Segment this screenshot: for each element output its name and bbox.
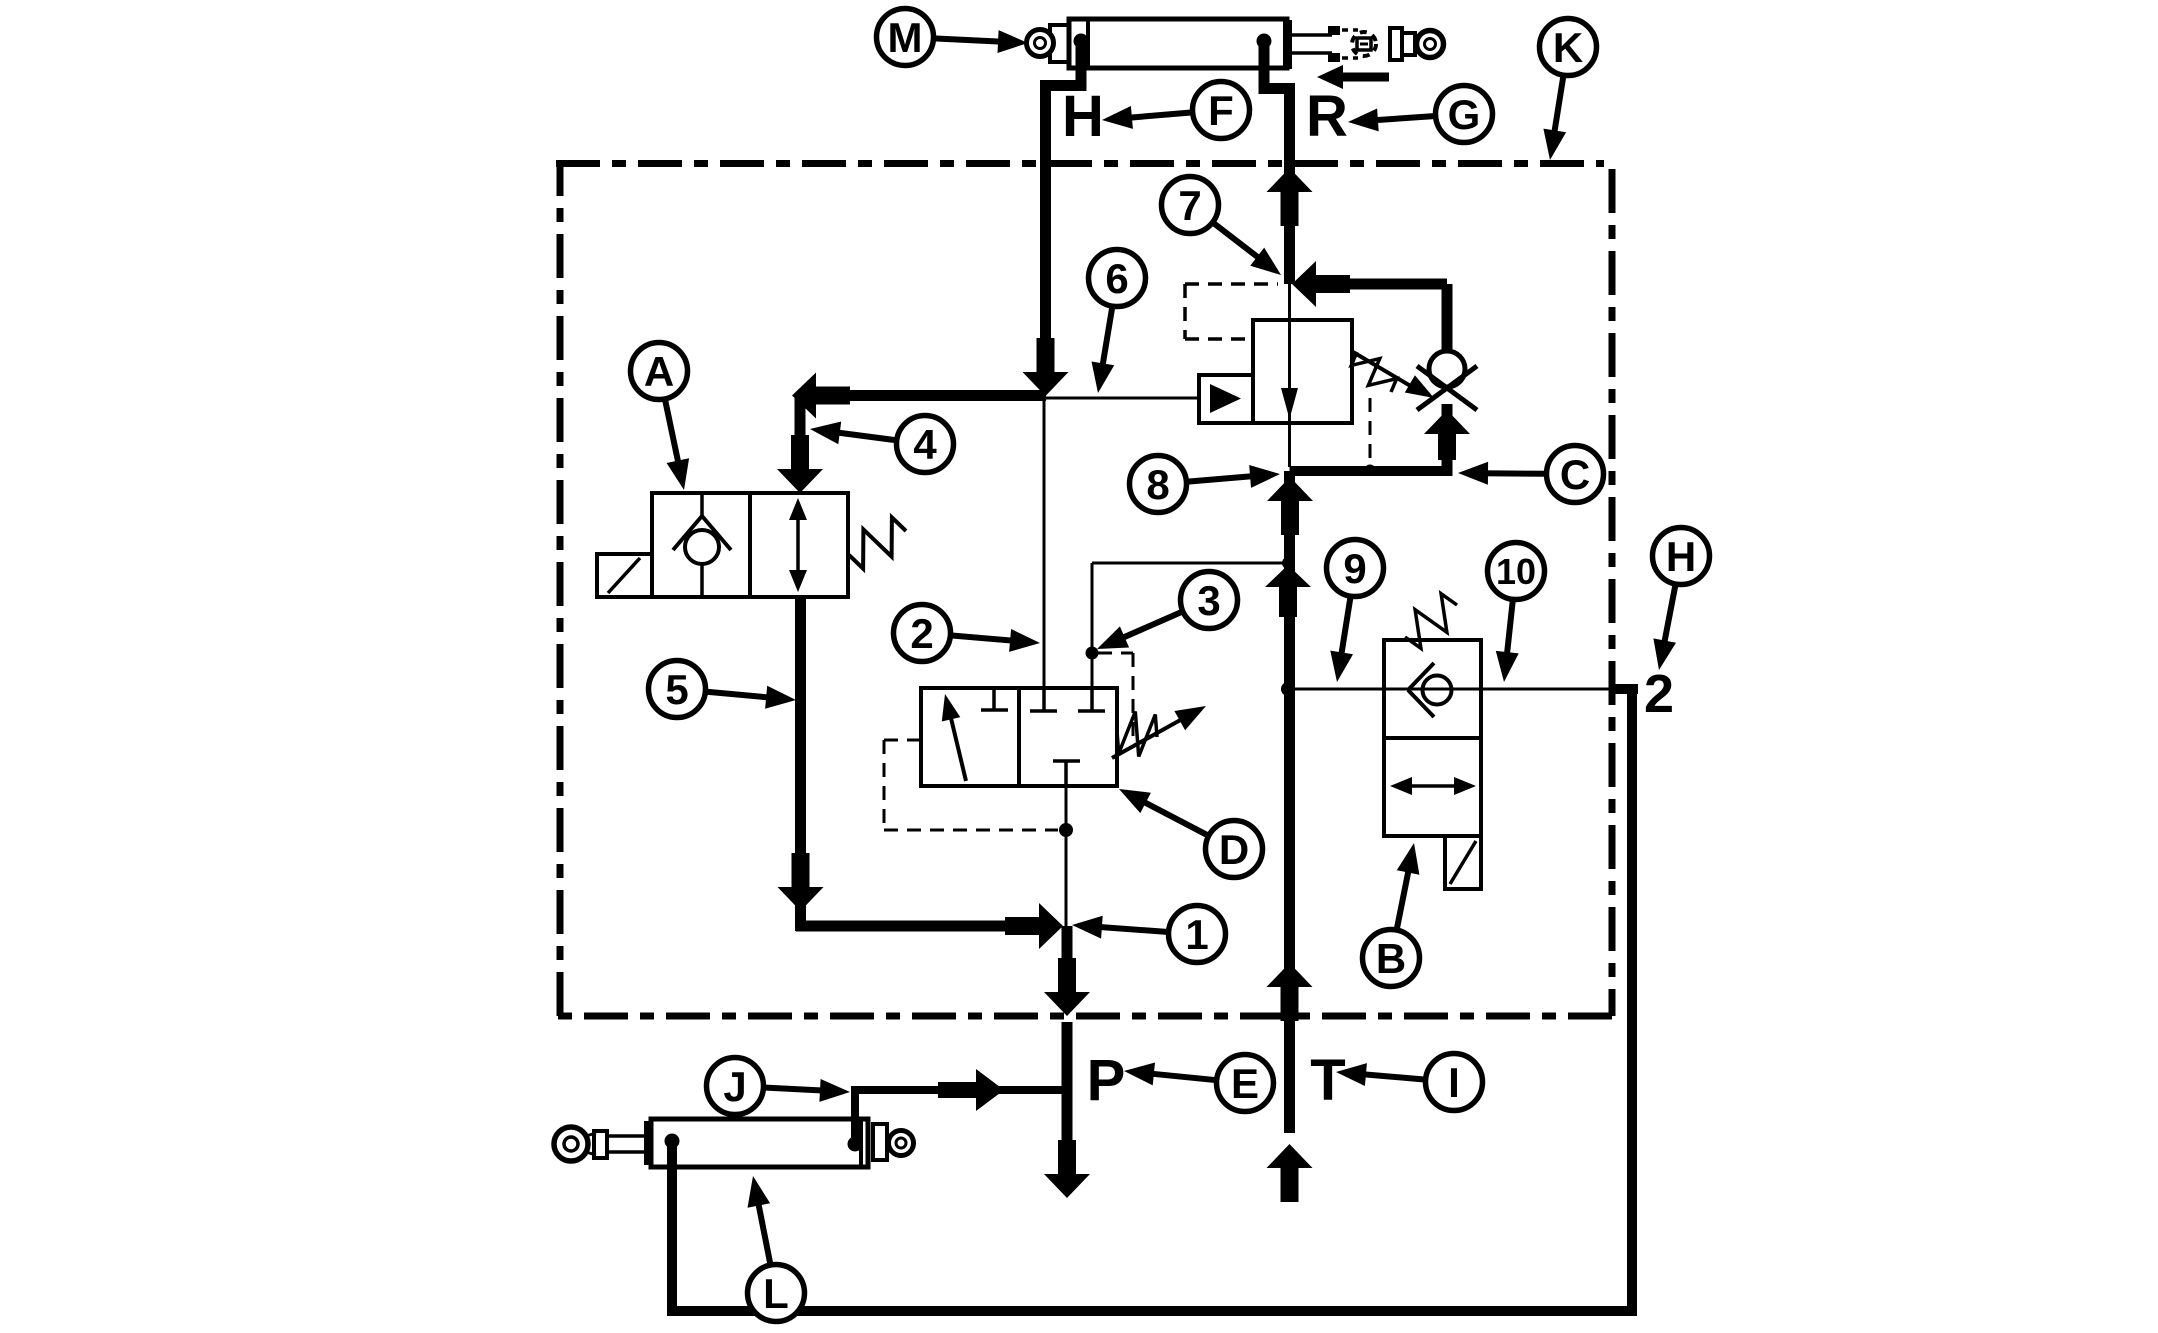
wire line-3 drop — [1091, 563, 1094, 652]
wire below check valve — [1442, 404, 1453, 471]
callout I — [1336, 1054, 1483, 1111]
relief valve adjust arrow — [1353, 352, 1414, 388]
arrow right into junction 1 — [1005, 903, 1063, 949]
dashed from dot 3 — [1098, 652, 1133, 655]
svg-text:D: D — [1219, 826, 1249, 873]
arrow down P end — [1044, 1140, 1090, 1198]
valve A check symbol — [700, 493, 704, 519]
svg-text:1: 1 — [1185, 911, 1208, 958]
svg-text:4: 4 — [913, 421, 937, 468]
cylinder L right eye — [873, 1124, 887, 1160]
cylinder M rod-end cap — [1283, 20, 1292, 69]
wire external right vertical — [1627, 684, 1637, 1316]
wire line-5 vertical — [795, 597, 806, 868]
relief valve body — [1253, 320, 1352, 423]
wire external bottom — [667, 1306, 1637, 1316]
junction dot 3 — [1086, 647, 1099, 660]
arrow up T inlet — [1267, 1144, 1313, 1202]
svg-text:G: G — [1448, 91, 1481, 138]
check valve C seat — [1417, 366, 1477, 410]
cylinder M rod — [1292, 33, 1332, 37]
valve A body — [652, 493, 848, 597]
callout K — [1540, 19, 1597, 161]
valve D port T left cell — [992, 688, 996, 710]
wire T line main — [1284, 471, 1295, 1133]
valve D spring — [1117, 712, 1157, 757]
valve B flow arrow (double headed horizontal) — [1404, 784, 1462, 788]
cylinder L port dots — [665, 1134, 680, 1149]
svg-text:I: I — [1448, 1059, 1460, 1106]
valve B check symbol — [1408, 663, 1434, 690]
junction dot below valve D — [1059, 823, 1073, 837]
arrow left end of line-4 — [792, 373, 850, 419]
valve D port T right cell a — [1042, 688, 1046, 711]
valve A flow arrow (double headed) — [796, 514, 800, 574]
cylinder L rod eye — [554, 1127, 588, 1161]
retract direction arrow — [1317, 65, 1389, 89]
wire pilot into valve D right — [1091, 653, 1094, 688]
cylinder M rod eye — [1390, 28, 1402, 60]
relief valve pilot box — [1199, 375, 1253, 423]
svg-text:2: 2 — [1644, 664, 1674, 724]
cylinder L rod bracket — [594, 1131, 607, 1158]
callout 8 — [1130, 456, 1281, 513]
svg-text:F: F — [1208, 87, 1234, 134]
relief valve internal arrow — [1281, 388, 1298, 419]
arrow up below junction 8 — [1267, 477, 1313, 535]
svg-text:10: 10 — [1496, 551, 1536, 592]
check valve C ball — [1429, 351, 1465, 387]
junction dot valve B branch — [1281, 682, 1295, 696]
callout B — [1363, 843, 1420, 987]
arrow up below line-3 junction — [1265, 565, 1311, 617]
wire line-3 thin — [1092, 562, 1284, 565]
wire R vertical line — [1284, 85, 1295, 284]
valve B solenoid — [1445, 836, 1481, 889]
arrow left into junction 7 — [1292, 261, 1350, 307]
valve D port T right cell b — [1090, 688, 1094, 711]
svg-text:9: 9 — [1343, 545, 1366, 592]
wire J riser — [851, 1090, 859, 1140]
svg-text:3: 3 — [1197, 577, 1220, 624]
callout J — [707, 1058, 851, 1115]
cylinder L rod — [607, 1134, 651, 1138]
wire pilot line 2 — [1043, 396, 1046, 688]
relief valve dashed envelope — [1185, 282, 1278, 286]
callout 5 — [649, 661, 797, 718]
svg-text:7: 7 — [1178, 182, 1201, 229]
valve D body — [921, 688, 1117, 786]
svg-text:B: B — [1376, 935, 1406, 982]
arrow down into valve A — [777, 435, 823, 493]
wire external left up to cylinder L — [667, 1141, 677, 1316]
cylinder L head cap — [644, 1121, 652, 1165]
wire P below border — [1062, 1022, 1073, 1156]
wire junction-8 horizontal — [1290, 466, 1453, 476]
svg-text:6: 6 — [1105, 255, 1128, 302]
callout 6 — [1089, 250, 1146, 394]
cylinder M clevis — [1050, 25, 1069, 62]
junction dot line-3 — [1282, 557, 1294, 569]
wire line-2 corner step — [1615, 684, 1638, 694]
svg-text:8: 8 — [1146, 461, 1169, 508]
callout 9 — [1327, 540, 1384, 683]
valve D dashed pilot box — [884, 739, 921, 742]
arrow down on line-5 — [778, 853, 824, 911]
svg-text:J: J — [723, 1063, 746, 1110]
arrow up on R line at border — [1267, 168, 1313, 226]
valve D bottom port T — [1053, 759, 1080, 763]
enclosure border K (dash-dot box) — [556, 160, 1604, 167]
callout L — [748, 1176, 805, 1322]
wire line-4 horizontal — [840, 390, 1046, 401]
wire line-5 corner horizontal — [796, 921, 1020, 932]
wire J horizontal — [851, 1086, 1062, 1094]
relief dashed pilot sense — [1369, 398, 1372, 464]
valve B body — [1384, 640, 1481, 836]
wire drop into valve A — [795, 398, 806, 462]
relief valve spring — [1351, 352, 1396, 392]
wire below junction 1 — [1062, 926, 1073, 974]
svg-text:2: 2 — [910, 610, 933, 657]
valve B spring — [1405, 594, 1457, 649]
callout F — [1102, 82, 1250, 139]
wire R port down-jog — [1264, 45, 1290, 120]
svg-text:M: M — [888, 14, 923, 61]
valve D adjust arrow — [1112, 718, 1184, 758]
arrow up on T above border — [1267, 963, 1313, 1021]
callout C — [1458, 446, 1604, 503]
svg-text:K: K — [1553, 24, 1583, 71]
wire line-9-10 — [1295, 688, 1620, 691]
arrow down at border P — [1044, 958, 1090, 1016]
svg-text:T: T — [1310, 1048, 1345, 1113]
cylinder L body — [651, 1119, 868, 1167]
wire H port down-jog — [1046, 45, 1082, 120]
cylinder M rod coupler (dashed quick-connect) — [1328, 26, 1340, 35]
arrow up below check valve — [1424, 410, 1470, 460]
wire valve D to junction 1 — [1065, 786, 1068, 926]
wire relief center line — [1288, 284, 1291, 467]
callout 1 — [1072, 906, 1226, 963]
svg-text:A: A — [644, 348, 674, 395]
valve A spring — [849, 517, 906, 568]
valve A solenoid — [597, 554, 652, 597]
cylinder M body — [1069, 19, 1287, 68]
callout H — [1653, 528, 1710, 671]
svg-text:P: P — [1087, 1048, 1126, 1113]
callout 4 — [810, 416, 954, 473]
callout E — [1124, 1055, 1274, 1112]
svg-text:5: 5 — [665, 666, 688, 713]
svg-text:C: C — [1560, 451, 1590, 498]
svg-text:H: H — [1666, 533, 1696, 580]
svg-text:R: R — [1306, 84, 1348, 149]
svg-text:L: L — [763, 1270, 789, 1317]
svg-text:E: E — [1231, 1060, 1259, 1107]
callout 2 — [894, 605, 1041, 662]
callout M — [877, 9, 1029, 66]
cylinder M port dots — [1074, 34, 1089, 49]
callout 10 — [1488, 543, 1545, 683]
wire H vertical line — [1040, 85, 1051, 372]
callout G — [1348, 86, 1493, 143]
valve D left-cell arrow — [950, 714, 966, 781]
callout A — [631, 343, 690, 491]
arrow down at H junction — [1023, 338, 1069, 396]
wire loop from junction 7 — [1308, 279, 1447, 290]
arrow right on J line — [938, 1069, 1004, 1111]
wire line-6 thin — [1046, 397, 1199, 400]
callout 7 — [1162, 177, 1282, 276]
callout D — [1119, 789, 1263, 878]
callout 3 — [1097, 572, 1238, 650]
svg-text:H: H — [1062, 84, 1104, 149]
